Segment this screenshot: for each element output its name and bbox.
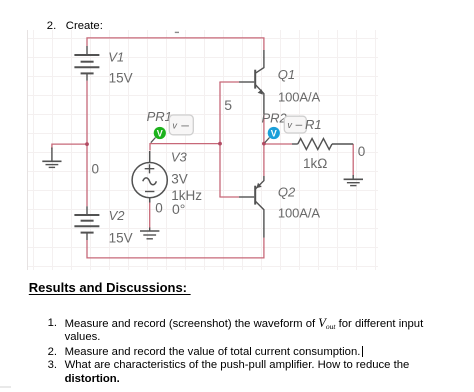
probe PR1 (green voltage probe) [151, 127, 166, 143]
svg-text:Q1: Q1 [278, 67, 295, 82]
net label dash above top wire [175, 31, 179, 33]
svg-text:V: V [271, 128, 277, 138]
svg-text:1kΩ: 1kΩ [303, 156, 327, 171]
probe PR2 (blue voltage probe) [265, 127, 280, 143]
node junction net 5 [218, 142, 222, 146]
faint bottom-left artifact [0, 386, 11, 388]
svg-text:0°: 0° [172, 201, 185, 217]
source V3 [132, 151, 167, 203]
svg-text:100A/A: 100A/A [278, 206, 320, 221]
svg-text:V: V [157, 128, 163, 138]
probe PR1 readout box [169, 115, 193, 135]
wire Q1 emitter to output node [263, 114, 265, 144]
svg-text:R1: R1 [305, 117, 322, 132]
svg-text:100A/A: 100A/A [278, 90, 320, 105]
document heading line "2. Create:" [47, 20, 56, 32]
ground (left) [42, 148, 61, 168]
text cursor [362, 346, 363, 357]
node junction output [262, 142, 266, 146]
grid (decorative) [28, 30, 379, 270]
ground (right) [344, 175, 363, 186]
svg-text:3V: 3V [171, 172, 188, 187]
svg-text:15V: 15V [109, 71, 133, 86]
ground (under V3) [140, 228, 159, 239]
transistor Q2 (PNP) [239, 176, 264, 238]
wire V3- to ground [149, 202, 151, 229]
transistor Q1 (NPN) [239, 50, 264, 114]
list item 1 [48, 317, 57, 329]
wire R1 to right ground [352, 144, 354, 176]
svg-text:5: 5 [224, 97, 232, 113]
resistor R1 [292, 139, 353, 150]
list item 3 [48, 359, 57, 371]
list item 2 [48, 346, 57, 358]
wire net 5 vertical [219, 82, 221, 197]
svg-text:V1: V1 [108, 50, 124, 65]
heading Results and Discussions [29, 281, 191, 294]
svg-text:V2: V2 [109, 208, 126, 223]
battery V1 [74, 46, 99, 81]
wire bottom: V2- to Q2 collector [87, 238, 264, 258]
battery V2 [74, 206, 99, 240]
svg-text:0: 0 [358, 144, 366, 159]
svg-text:V3: V3 [171, 150, 188, 165]
probe PR2 readout box [284, 116, 306, 133]
wire output node to R1 [264, 143, 292, 145]
wire net 5 to Q2 base [219, 196, 239, 198]
svg-text:15V: 15V [109, 231, 133, 246]
node junction left (0 net) [85, 142, 89, 146]
wire net 5 to Q1 base [219, 81, 239, 83]
wire V3+ to net 5 [150, 144, 220, 151]
wire top: V1+ to Q1 collector [87, 38, 264, 50]
wire output node to Q2 emitter [263, 144, 265, 177]
svg-text:PR1: PR1 [147, 109, 172, 124]
svg-text:0: 0 [92, 162, 100, 177]
wire node 0 to left ground [52, 144, 87, 149]
svg-text:Q2: Q2 [278, 184, 296, 199]
svg-text:0: 0 [155, 201, 163, 216]
wire V1- to V2+ (left vertical) [86, 81, 88, 207]
